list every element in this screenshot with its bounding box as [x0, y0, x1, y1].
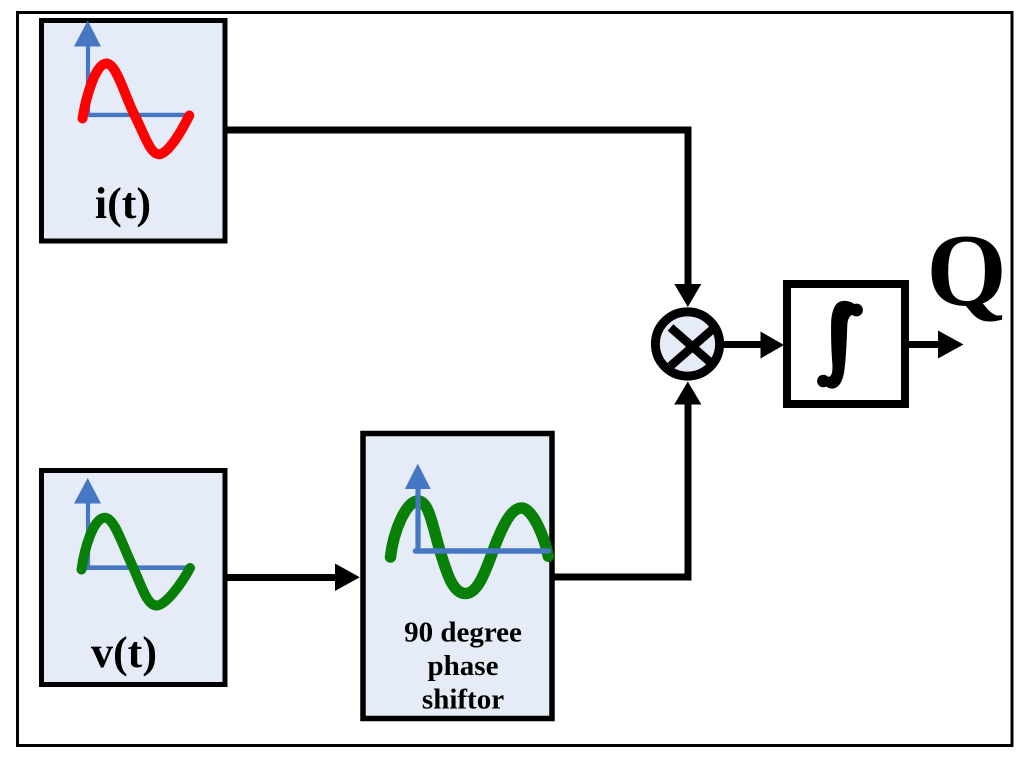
- phase shifter horizontal axis: [415, 548, 548, 553]
- v(t) vertical axis arrow: [74, 478, 101, 568]
- i(t) horizontal axis: [87, 113, 189, 117]
- phase shifter green cosine wave: [391, 501, 549, 594]
- svg-text:90 degree: 90 degree: [404, 617, 522, 649]
- phase shifter vertical axis arrow: [405, 464, 431, 551]
- svg-text:i(t): i(t): [95, 179, 151, 228]
- block i(t) current source: [42, 21, 226, 242]
- i(t) red sine wave: [83, 64, 190, 155]
- block v(t) voltage source: [42, 471, 226, 685]
- svg-text:phase: phase: [428, 650, 499, 682]
- arrowhead into phase shifter: [335, 564, 360, 592]
- output arrowhead: [938, 331, 964, 359]
- svg-text:shiftor: shiftor: [422, 684, 504, 716]
- wire i(t) to multiplier: [227, 130, 688, 290]
- arrowhead into multiplier top: [674, 284, 701, 307]
- v(t) horizontal axis: [87, 565, 190, 570]
- arrowhead into integrator: [761, 332, 785, 359]
- label 90 degree phase shiftor: [404, 617, 522, 716]
- multiplier X: [671, 328, 715, 367]
- integral sign: [817, 301, 863, 389]
- v(t) green sine wave: [82, 518, 191, 606]
- multiplier circle: [655, 312, 719, 376]
- wire v(t) to phase shifter: [227, 574, 336, 581]
- wire multiplier to integrator: [723, 341, 761, 348]
- wire integrator to output: [908, 341, 939, 348]
- i(t) vertical axis arrow: [74, 21, 101, 116]
- svg-text:v(t): v(t): [91, 628, 157, 677]
- arrowhead into multiplier bottom: [674, 382, 701, 405]
- wire phase shifter to multiplier: [554, 402, 688, 577]
- integrator block: [787, 284, 905, 404]
- svg-text:Q: Q: [926, 214, 1006, 328]
- block 90 degree phase shifter: [363, 434, 552, 719]
